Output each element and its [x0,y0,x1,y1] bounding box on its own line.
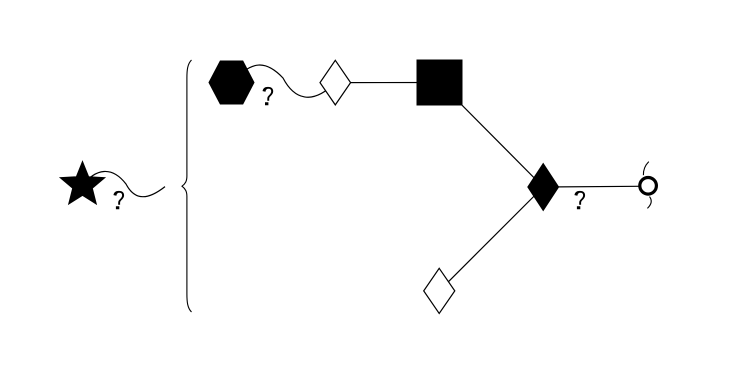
label ? near hexagon [263,87,274,105]
brace (large curly bracket) [182,60,192,312]
reducing end bracket bottom arc [647,197,651,209]
white diamond (bottom) [424,268,455,313]
wire: black square to black diamond [440,83,544,188]
hexagon (filled) [209,61,254,104]
label ? near black diamond [575,191,586,209]
wire: black diamond to bottom white diamond [439,187,543,291]
wire: white diamond to black square [335,82,439,84]
reducing end bracket top arc [643,162,648,176]
label ? near star [114,191,125,209]
white diamond (top) [320,60,351,105]
wire: wavy uncertain link hexagon to white diamond [232,65,336,97]
reducing end circle [640,178,657,195]
black diamond (filled) [528,164,559,211]
star (filled) [60,162,105,205]
wire: wavy uncertain link from star [82,171,165,196]
black square [417,60,462,105]
wire: black diamond to reducing-end circle [543,185,648,188]
